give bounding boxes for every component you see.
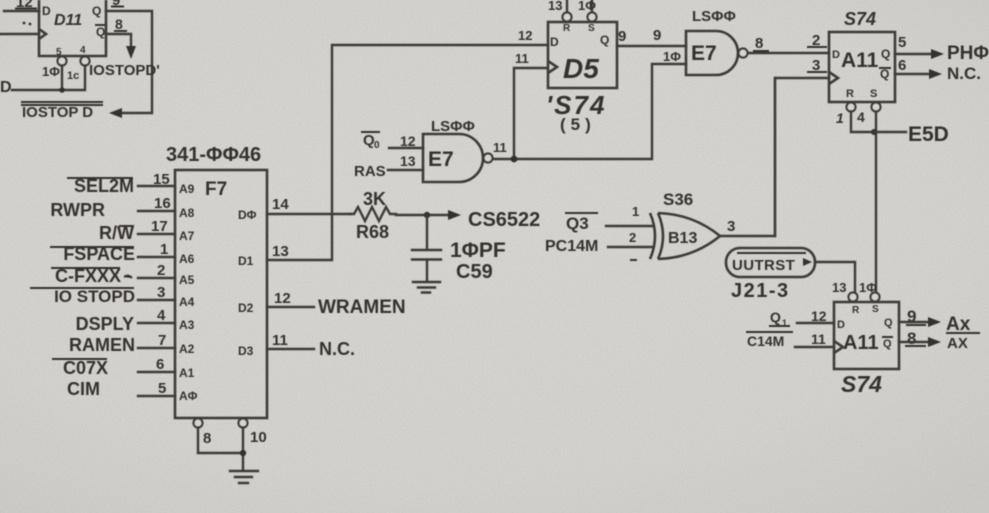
svg-text:S36: S36 bbox=[663, 190, 693, 209]
svg-text:PHΦ: PHΦ bbox=[947, 43, 989, 64]
svg-text:9: 9 bbox=[653, 27, 661, 44]
svg-text:A11: A11 bbox=[843, 332, 879, 354]
svg-text:1Φ: 1Φ bbox=[578, 0, 596, 13]
svg-text:Q: Q bbox=[92, 4, 101, 18]
svg-text:8: 8 bbox=[203, 430, 211, 447]
svg-text:A1: A1 bbox=[179, 366, 195, 380]
svg-text:PC14M: PC14M bbox=[545, 238, 598, 255]
svg-text:N.C.: N.C. bbox=[947, 64, 981, 83]
svg-text:A2: A2 bbox=[179, 342, 195, 356]
svg-text:341-ΦΦ46: 341-ΦΦ46 bbox=[166, 144, 261, 166]
svg-text:AX: AX bbox=[947, 335, 968, 352]
svg-text:Q: Q bbox=[880, 67, 889, 81]
svg-text:RAS: RAS bbox=[354, 163, 386, 180]
svg-text:D: D bbox=[832, 49, 840, 61]
svg-text:C14M: C14M bbox=[747, 333, 784, 349]
svg-text:R: R bbox=[852, 305, 860, 316]
svg-text:1ΦPF: 1ΦPF bbox=[450, 239, 506, 262]
svg-text:11: 11 bbox=[272, 332, 288, 349]
svg-text:A9: A9 bbox=[179, 182, 195, 196]
svg-text:11: 11 bbox=[493, 140, 507, 155]
svg-text:RWPR: RWPR bbox=[50, 200, 105, 220]
svg-text:R: R bbox=[563, 23, 571, 34]
svg-text:B13: B13 bbox=[668, 230, 697, 247]
svg-text:9: 9 bbox=[112, 0, 120, 9]
svg-text:4: 4 bbox=[157, 307, 166, 324]
svg-text:D: D bbox=[42, 4, 51, 18]
svg-text:CS6522: CS6522 bbox=[468, 209, 540, 231]
svg-text:A4: A4 bbox=[179, 295, 195, 309]
svg-text:12: 12 bbox=[400, 133, 416, 149]
svg-text:(5): (5) bbox=[560, 115, 596, 134]
svg-text:8: 8 bbox=[115, 16, 123, 32]
svg-text:14: 14 bbox=[272, 196, 289, 213]
svg-text:C59: C59 bbox=[456, 261, 493, 283]
svg-text:Ax: Ax bbox=[946, 314, 971, 335]
svg-text:LSΦΦ: LSΦΦ bbox=[431, 118, 475, 135]
svg-text:LSΦΦ: LSΦΦ bbox=[692, 8, 736, 25]
svg-text:5: 5 bbox=[898, 34, 906, 51]
svg-text:D1: D1 bbox=[238, 254, 254, 268]
svg-text:4: 4 bbox=[857, 109, 865, 125]
svg-text:A5: A5 bbox=[179, 273, 195, 287]
svg-text:A6: A6 bbox=[179, 252, 195, 266]
svg-text:4: 4 bbox=[80, 45, 86, 56]
svg-text:D: D bbox=[550, 35, 559, 49]
svg-text:R: R bbox=[846, 88, 854, 100]
svg-text:3: 3 bbox=[727, 218, 735, 235]
svg-text:A11: A11 bbox=[841, 49, 879, 72]
svg-text:Q: Q bbox=[883, 338, 892, 350]
svg-text:D5: D5 bbox=[563, 53, 599, 84]
svg-text:Q3: Q3 bbox=[566, 214, 589, 233]
svg-text:13: 13 bbox=[272, 243, 289, 260]
svg-text:E7: E7 bbox=[428, 148, 454, 171]
svg-text:9: 9 bbox=[618, 28, 626, 45]
svg-text:S: S bbox=[588, 23, 595, 34]
svg-text:AΦ: AΦ bbox=[179, 389, 198, 403]
svg-text:1: 1 bbox=[836, 110, 844, 126]
svg-text:RAMEN: RAMEN bbox=[69, 335, 135, 355]
svg-text:IO STOPD: IO STOPD bbox=[54, 287, 135, 306]
svg-text:1c: 1c bbox=[67, 70, 79, 82]
svg-text:A7: A7 bbox=[179, 229, 195, 243]
svg-text:11: 11 bbox=[515, 51, 529, 66]
svg-text:D2: D2 bbox=[238, 301, 254, 315]
svg-text:R68: R68 bbox=[356, 222, 389, 242]
svg-text:A8: A8 bbox=[179, 206, 195, 220]
svg-text:Q: Q bbox=[770, 309, 781, 325]
svg-text:10: 10 bbox=[250, 429, 267, 446]
svg-text:UUTRST: UUTRST bbox=[732, 257, 795, 274]
svg-text:1: 1 bbox=[632, 204, 639, 219]
svg-text:6: 6 bbox=[898, 57, 906, 74]
svg-text:Q: Q bbox=[884, 317, 893, 329]
svg-text:7: 7 bbox=[158, 332, 166, 349]
svg-text:D: D bbox=[837, 319, 845, 331]
svg-text:1: 1 bbox=[160, 241, 168, 258]
svg-text:12: 12 bbox=[274, 290, 291, 307]
svg-text:IOSTOP D: IOSTOP D bbox=[22, 104, 93, 121]
svg-text:1Φ: 1Φ bbox=[42, 64, 60, 79]
svg-text:13: 13 bbox=[400, 153, 416, 169]
svg-text:D3: D3 bbox=[238, 344, 254, 358]
svg-text:E7: E7 bbox=[691, 42, 717, 65]
svg-text:S: S bbox=[870, 88, 877, 100]
svg-text:12: 12 bbox=[811, 308, 827, 324]
svg-text:N.C.: N.C. bbox=[319, 339, 355, 359]
svg-text:3: 3 bbox=[157, 284, 165, 301]
svg-text:2: 2 bbox=[629, 230, 636, 245]
svg-text:DSPLY: DSPLY bbox=[76, 314, 134, 334]
svg-text:CIM: CIM bbox=[67, 379, 100, 399]
svg-text:D: D bbox=[0, 79, 12, 96]
svg-text:DΦ: DΦ bbox=[238, 208, 257, 222]
svg-text:J21-3: J21-3 bbox=[731, 280, 790, 302]
svg-text:12: 12 bbox=[518, 28, 532, 43]
svg-text:3K: 3K bbox=[363, 189, 386, 209]
svg-text:16: 16 bbox=[154, 195, 171, 212]
svg-text:15: 15 bbox=[153, 171, 170, 188]
svg-text:S74: S74 bbox=[844, 9, 876, 29]
svg-text:5: 5 bbox=[56, 47, 62, 58]
svg-text:A3: A3 bbox=[179, 318, 195, 332]
svg-text:17: 17 bbox=[151, 218, 168, 235]
svg-text:E5D: E5D bbox=[908, 123, 949, 146]
svg-text:1Φ: 1Φ bbox=[859, 280, 877, 295]
svg-text:F7: F7 bbox=[205, 179, 227, 200]
svg-text:WRAMEN: WRAMEN bbox=[318, 297, 406, 318]
svg-text:S: S bbox=[872, 304, 879, 315]
svg-text:6: 6 bbox=[156, 356, 164, 373]
svg-text:11: 11 bbox=[811, 331, 826, 347]
svg-text:Q: Q bbox=[96, 25, 105, 39]
svg-text:13: 13 bbox=[548, 0, 562, 13]
svg-text:IOSTOPD': IOSTOPD' bbox=[89, 62, 160, 79]
svg-text:Q: Q bbox=[881, 47, 890, 61]
svg-text:8: 8 bbox=[755, 35, 763, 52]
svg-text:D11: D11 bbox=[54, 12, 82, 29]
svg-text:0: 0 bbox=[374, 140, 380, 151]
svg-text:2: 2 bbox=[157, 262, 165, 279]
svg-text:5: 5 bbox=[158, 380, 166, 397]
svg-text:S74: S74 bbox=[841, 371, 882, 397]
svg-text:Q: Q bbox=[600, 33, 609, 47]
svg-text:C07X: C07X bbox=[63, 358, 108, 378]
svg-text:13: 13 bbox=[832, 280, 846, 295]
svg-text:1Φ: 1Φ bbox=[663, 49, 681, 64]
